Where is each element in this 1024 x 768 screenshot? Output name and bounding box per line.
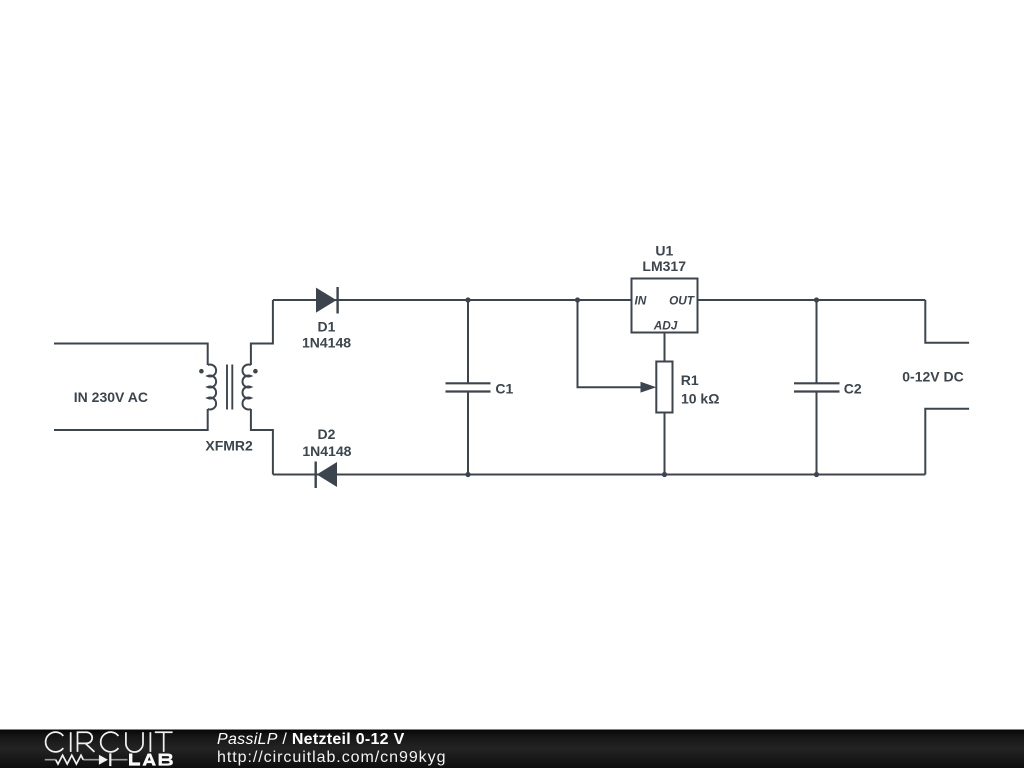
label 0-12V DC [902, 369, 963, 385]
wire secondary bottom jog [251, 409, 273, 475]
node dot R1 bottom [662, 472, 667, 477]
diode D2 [316, 462, 337, 489]
label D2 [302, 426, 351, 459]
wire secondary top jog [251, 300, 273, 365]
svg-text:IN: IN [635, 294, 647, 308]
node dot C1 bottom [465, 472, 470, 477]
wire bottom rail [273, 474, 925, 476]
capacitor C2 [794, 300, 840, 475]
potentiometer R1 [656, 362, 672, 475]
svg-text:R1: R1 [681, 372, 699, 388]
node dot wiper branch [575, 297, 580, 302]
footer url [217, 749, 446, 766]
footer bar [0, 730, 1024, 768]
node dot C2 bottom [814, 472, 819, 477]
svg-text:1N4148: 1N4148 [302, 335, 351, 351]
diode D1 [316, 287, 338, 314]
label XFMR2 [205, 437, 253, 453]
svg-text:http://circuitlab.com/cn99kyg: http://circuitlab.com/cn99kyg [217, 749, 446, 766]
wire top rail [273, 299, 632, 301]
svg-text:1N4148: 1N4148 [302, 443, 351, 459]
label D1 [302, 318, 351, 350]
label U1 [642, 242, 686, 274]
wire input top [54, 344, 208, 366]
wire input bottom [54, 409, 208, 430]
wire ADJ pin [664, 333, 666, 362]
capacitor C1 [446, 300, 491, 475]
wiper arrow [641, 382, 657, 393]
pin label ADJ [653, 318, 678, 332]
logo CIRCUIT [46, 732, 173, 752]
svg-text:LM317: LM317 [642, 258, 686, 274]
wire output bottom terminal [925, 409, 969, 475]
footer title [217, 731, 405, 748]
wire wiper branch [578, 300, 643, 387]
transformer XFMR2 [199, 364, 258, 409]
logo resistor-diode squiggle [45, 753, 128, 766]
regulator U1 LM317 box [632, 279, 698, 333]
svg-text:ADJ: ADJ [653, 318, 678, 332]
wire output top terminal [925, 300, 969, 343]
wire out rail [698, 299, 926, 301]
svg-text:U1: U1 [655, 242, 673, 258]
label C1 [495, 381, 513, 397]
svg-text:IN 230V AC: IN 230V AC [74, 389, 148, 405]
svg-text:OUT: OUT [669, 294, 696, 308]
node dot C1 top [465, 297, 470, 302]
pin label OUT [669, 294, 696, 308]
svg-text:C1: C1 [495, 381, 513, 397]
label IN 230V AC [74, 389, 148, 405]
svg-text:D2: D2 [318, 426, 336, 442]
svg-text:0-12V DC: 0-12V DC [902, 369, 963, 385]
logo LAB [129, 754, 173, 766]
svg-text:10 kΩ: 10 kΩ [681, 390, 719, 406]
svg-text:D1: D1 [318, 318, 336, 334]
pin label IN [635, 294, 647, 308]
label C2 [844, 381, 862, 397]
svg-text:XFMR2: XFMR2 [205, 437, 253, 453]
svg-text:PassiLP / Netzteil 0-12 V: PassiLP / Netzteil 0-12 V [217, 731, 405, 748]
svg-text:C2: C2 [844, 381, 862, 397]
label R1 [681, 372, 720, 406]
node dot C2 top [814, 297, 819, 302]
